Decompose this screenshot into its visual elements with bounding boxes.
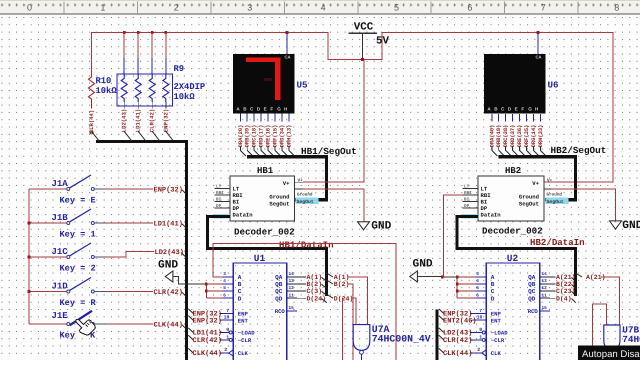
7-segment display U6 (blank) <box>484 54 546 114</box>
svg-text:ENP(32): ENP(32) <box>162 109 169 133</box>
U1 output wires A(1) B(2) C(3) D(24) into bus <box>297 274 327 303</box>
svg-text:SegOut: SegOut <box>519 201 539 208</box>
svg-text:~CLR: ~CLR <box>491 337 505 344</box>
svg-text:HB2: HB2 <box>505 166 521 176</box>
svg-text:Ground: Ground <box>519 194 539 201</box>
svg-text:~LOAD: ~LOAD <box>238 330 255 337</box>
svg-text:D: D <box>238 295 242 302</box>
svg-text:CLK(44): CLK(44) <box>193 349 222 358</box>
svg-text:ORD(37): ORD(37) <box>510 125 516 148</box>
svg-text:5: 5 <box>394 2 399 12</box>
wire J1A to bus, net ENP(32) <box>94 185 186 194</box>
wire B(2) down to U7B <box>348 284 353 360</box>
svg-text:E: E <box>515 107 518 112</box>
bus entry diagonals from resistors <box>92 131 174 141</box>
svg-text:F: F <box>270 107 273 112</box>
resistor pack R9 2X4DIP <box>117 33 205 109</box>
svg-text:J1A: J1A <box>52 179 69 189</box>
svg-text:ENP(32): ENP(32) <box>154 185 183 194</box>
svg-text:RCO: RCO <box>528 308 539 315</box>
switch J1E Key = K <box>29 311 96 341</box>
svg-text:3: 3 <box>247 2 252 12</box>
bus HB2/SegOut <box>499 157 576 200</box>
svg-text:Autopan Disa: Autopan Disa <box>582 349 640 360</box>
svg-text:13: 13 <box>542 279 548 284</box>
svg-text:74HC00N_4V: 74HC00N_4V <box>622 334 640 345</box>
svg-text:G: G <box>277 107 281 112</box>
svg-text:D(24): D(24) <box>307 295 327 302</box>
svg-text:ENT: ENT <box>491 317 502 324</box>
svg-text:C: C <box>238 288 242 295</box>
svg-text:15: 15 <box>289 306 295 311</box>
svg-text:CLK(44): CLK(44) <box>443 349 472 358</box>
svg-text:9: 9 <box>226 327 229 333</box>
svg-text:U2: U2 <box>507 253 519 264</box>
U1 control net labels from bus <box>188 309 222 358</box>
wire HB1 Ground to GND <box>295 189 364 222</box>
svg-text:SegOut: SegOut <box>269 201 289 208</box>
svg-text:QC: QC <box>275 288 283 295</box>
svg-text:BI: BI <box>464 197 470 202</box>
svg-text:DP: DP <box>464 204 470 209</box>
svg-text:4: 4 <box>223 279 226 284</box>
svg-text:6: 6 <box>223 293 226 298</box>
svg-text:~LOAD: ~LOAD <box>491 330 508 337</box>
svg-text:B(2): B(2) <box>334 281 350 288</box>
svg-text:Key = 2: Key = 2 <box>60 264 96 274</box>
svg-text:1: 1 <box>100 2 105 12</box>
svg-text:DataIn: DataIn <box>481 211 502 218</box>
svg-text:ORE(16): ORE(16) <box>266 125 272 148</box>
svg-text:LD2(43): LD2(43) <box>155 248 184 257</box>
top ruler bar <box>0 0 640 14</box>
svg-text:GND: GND <box>413 259 433 271</box>
svg-text:U6: U6 <box>548 80 559 91</box>
counter U2 <box>473 253 551 362</box>
svg-text:Ground: Ground <box>297 192 313 198</box>
power VCC <box>349 22 390 60</box>
svg-text:ORC(38): ORC(38) <box>503 125 509 148</box>
svg-text:7: 7 <box>226 308 229 314</box>
svg-text:QB: QB <box>275 281 283 288</box>
svg-text:Decoder_002: Decoder_002 <box>482 226 543 237</box>
junction dots on key rail <box>28 222 31 293</box>
bus HB2/DataIn <box>457 217 576 297</box>
svg-text:GND: GND <box>622 220 640 232</box>
wire U6 CA stem <box>537 33 539 55</box>
svg-text:Ground: Ground <box>547 192 563 198</box>
svg-text:DataIn: DataIn <box>233 211 254 218</box>
svg-text:HB1/SegOut: HB1/SegOut <box>301 146 357 157</box>
svg-text:8: 8 <box>614 2 619 12</box>
svg-text:LT: LT <box>216 184 222 189</box>
svg-text:E: E <box>264 107 267 112</box>
HB2 DataIn pin cyan highlight <box>462 214 479 218</box>
svg-text:13: 13 <box>289 279 295 284</box>
svg-text:5V: 5V <box>376 36 389 48</box>
svg-text:14: 14 <box>289 272 295 277</box>
wire U1.A net to U7B (long) <box>213 244 396 361</box>
svg-text:C: C <box>491 288 495 295</box>
svg-text:LD2(43): LD2(43) <box>121 109 128 133</box>
svg-text:ORD(17): ORD(17) <box>259 125 265 148</box>
bus HB1/SegOut <box>247 157 327 200</box>
wire J1D to bus, net CLR(42) <box>94 288 186 297</box>
svg-text:RCO: RCO <box>275 308 286 315</box>
svg-text:ORH(13): ORH(13) <box>286 125 292 148</box>
svg-text:D: D <box>491 295 495 302</box>
wire A(1) to U7A input <box>348 277 368 325</box>
svg-text:GND: GND <box>371 220 391 232</box>
svg-text:A: A <box>238 274 242 281</box>
svg-text:ORC(18): ORC(18) <box>252 125 258 148</box>
svg-text:G: G <box>528 107 532 112</box>
svg-text:Key = 1: Key = 1 <box>60 230 96 240</box>
wire left key rail <box>28 189 30 324</box>
svg-text:F: F <box>521 107 524 112</box>
svg-text:CLR(42): CLR(42) <box>193 336 222 345</box>
svg-text:4: 4 <box>476 279 479 284</box>
svg-text:ORE(36): ORE(36) <box>517 125 523 148</box>
bus exit wires A(1) B(2) D(24) right of bus <box>326 273 353 303</box>
svg-text:BI: BI <box>216 197 222 202</box>
svg-text:4: 4 <box>321 2 326 12</box>
svg-text:B(2): B(2) <box>307 281 323 288</box>
svg-text:CLK(44): CLK(44) <box>154 320 183 329</box>
U6 segment wires with labels to bus <box>489 114 546 156</box>
svg-text:3: 3 <box>223 272 226 277</box>
svg-text:11: 11 <box>289 293 295 298</box>
svg-text:2X4DIP: 2X4DIP <box>174 82 206 92</box>
svg-text:14: 14 <box>542 272 548 277</box>
svg-text:R10: R10 <box>96 76 112 86</box>
svg-text:Key = E: Key = E <box>60 196 96 206</box>
svg-text:CLR(42): CLR(42) <box>443 336 472 345</box>
svg-text:74HC00N_4V: 74HC00N_4V <box>372 333 431 344</box>
svg-text:2: 2 <box>174 2 179 12</box>
ground symbol GND (right of HB2) <box>610 220 640 232</box>
svg-text:B: B <box>491 281 495 288</box>
bus exit wire A(21) right of bus <box>575 273 605 281</box>
svg-text:HB2/DataIn: HB2/DataIn <box>530 237 585 248</box>
svg-text:LT: LT <box>464 184 470 189</box>
svg-text:1: 1 <box>226 334 229 340</box>
wire vertical crossing near U7A <box>341 298 343 360</box>
U2 control net labels from bus <box>439 309 477 358</box>
svg-text:ORF(15): ORF(15) <box>273 125 279 148</box>
svg-text:Ground: Ground <box>269 194 289 201</box>
bus main left (resistors/keys to U1) <box>96 142 187 361</box>
svg-text:J1D: J1D <box>52 281 69 291</box>
svg-text:CA: CA <box>284 55 290 60</box>
svg-text:V+: V+ <box>283 180 290 187</box>
switch J1A Key = E <box>29 175 96 206</box>
svg-text:HB2/SegOut: HB2/SegOut <box>551 145 607 156</box>
switch J1B Key = 1 <box>29 209 96 240</box>
svg-text:CA: CA <box>535 55 541 60</box>
svg-text:ENT2(46): ENT2(46) <box>443 316 477 325</box>
7-segment display U5 showing 7 <box>233 54 295 114</box>
svg-text:6: 6 <box>476 293 479 298</box>
junction dots on VCC rail <box>123 31 540 61</box>
svg-text:V+: V+ <box>532 180 539 187</box>
svg-text:CLR(42): CLR(42) <box>154 288 183 297</box>
svg-text:ORB(18): ORB(18) <box>496 125 502 148</box>
wire U7B loop <box>593 304 607 352</box>
svg-text:J1B: J1B <box>52 213 69 223</box>
svg-text:A: A <box>491 274 495 281</box>
svg-text:CLR(42): CLR(42) <box>149 109 156 133</box>
svg-text:0: 0 <box>27 2 32 12</box>
svg-text:12: 12 <box>289 286 295 291</box>
svg-text:15: 15 <box>542 306 548 311</box>
svg-text:~CLR: ~CLR <box>238 337 252 344</box>
wire VCC rail <box>92 33 614 183</box>
svg-text:A(1): A(1) <box>307 274 323 281</box>
svg-text:HB1/DataIn: HB1/DataIn <box>279 240 334 251</box>
svg-text:ENT: ENT <box>238 317 249 324</box>
svg-text:12: 12 <box>542 286 548 291</box>
cursor hand icon over J1E <box>72 313 97 338</box>
svg-text:3: 3 <box>476 272 479 277</box>
svg-text:ORG(34): ORG(34) <box>279 125 285 148</box>
svg-text:B: B <box>238 281 242 288</box>
wire J1E to bus, net CLK(44) <box>94 320 186 329</box>
svg-text:QB: QB <box>528 281 536 288</box>
svg-text:J1C: J1C <box>52 247 69 257</box>
U2 output wires A(21) B(22) C(23) D(4) into bus <box>550 274 576 303</box>
svg-text:U1: U1 <box>254 253 266 264</box>
svg-text:R9: R9 <box>174 64 185 74</box>
wire GND to U2 inputs <box>417 276 475 299</box>
svg-text:C(3): C(3) <box>307 288 323 295</box>
svg-text:ORA(40): ORA(40) <box>489 125 495 148</box>
svg-text:GND: GND <box>158 260 178 272</box>
hierarchical block HB2 Decoder_002 <box>463 166 563 221</box>
svg-text:LD1(41): LD1(41) <box>154 219 183 228</box>
svg-text:QD: QD <box>275 295 283 302</box>
svg-text:5: 5 <box>223 286 226 291</box>
bus U2 control <box>435 310 438 361</box>
svg-text:6: 6 <box>467 2 472 12</box>
resistor R10 <box>89 33 118 134</box>
wire HB2 RBI to ground net <box>444 195 463 277</box>
svg-text:A(21): A(21) <box>586 274 606 281</box>
svg-text:10kΩ: 10kΩ <box>96 86 118 96</box>
svg-text:2: 2 <box>224 347 227 353</box>
svg-text:10: 10 <box>224 315 230 321</box>
HB2 SegOut pin cyan highlight + label <box>546 198 569 206</box>
U5 segment wires with labels to bus <box>238 113 295 156</box>
svg-text:QC: QC <box>528 288 536 295</box>
svg-text:J1E: J1E <box>52 311 69 321</box>
svg-text:ORB(39): ORB(39) <box>245 125 251 148</box>
HB1 SegOut pin cyan highlight + label <box>296 198 319 206</box>
wire J1B to bus, net LD1(41) <box>94 219 186 228</box>
svg-text:ORF(35): ORF(35) <box>524 125 530 148</box>
svg-text:7: 7 <box>541 2 546 12</box>
svg-text:Key = R: Key = R <box>60 298 97 308</box>
svg-text:D(24): D(24) <box>334 295 354 302</box>
svg-text:SegOut: SegOut <box>547 199 564 205</box>
ground symbol GND (keys/U1) <box>158 260 178 282</box>
svg-text:QD: QD <box>528 295 536 302</box>
svg-text:2: 2 <box>477 347 480 353</box>
svg-text:ORA(20): ORA(20) <box>238 125 244 148</box>
wire HB2 Ground to GND <box>544 189 616 221</box>
ground symbol GND (below HB1) <box>358 220 392 232</box>
svg-text:5: 5 <box>476 286 479 291</box>
bus HB1/DataIn <box>208 217 327 297</box>
svg-text:U5: U5 <box>297 80 309 91</box>
ground symbol GND (left of U2) <box>410 259 433 282</box>
svg-text:A(1): A(1) <box>334 274 350 281</box>
svg-text:LD1(41): LD1(41) <box>135 109 142 133</box>
svg-text:CLK: CLK <box>238 350 249 357</box>
NAND gate U7A 74HC00N_4V <box>353 324 431 360</box>
wire HB1 V+ to VCC <box>295 60 364 183</box>
svg-text:V+: V+ <box>547 179 553 184</box>
NAND gate U7B <box>604 325 640 350</box>
svg-text:V+: V+ <box>298 179 304 184</box>
switch J1C Key = 2 <box>29 243 96 274</box>
switch J1D Key = R <box>29 278 96 309</box>
svg-text:SegOut: SegOut <box>297 199 314 205</box>
svg-text:QA: QA <box>528 274 536 281</box>
svg-text:CLK: CLK <box>491 350 502 357</box>
svg-text:VCC: VCC <box>354 22 374 34</box>
svg-text:RBI: RBI <box>216 191 224 196</box>
wire D(24) to U7A input <box>352 298 357 324</box>
svg-text:DP: DP <box>216 204 222 209</box>
svg-text:Key: Key <box>60 331 75 341</box>
svg-text:HB1: HB1 <box>257 166 274 176</box>
wire A(21) to U7B <box>601 277 620 325</box>
svg-text:ORG(14): ORG(14) <box>531 125 537 148</box>
svg-text:10kΩ: 10kΩ <box>174 92 196 102</box>
status tooltip Autopan Disabled <box>578 346 640 360</box>
svg-text:QA: QA <box>275 274 283 281</box>
HB1 DataIn pin cyan highlight <box>214 214 231 218</box>
wire J1C to bus, net LD2(43) <box>94 248 186 258</box>
svg-text:CLR(44): CLR(44) <box>88 110 95 134</box>
svg-text:Decoder_002: Decoder_002 <box>234 227 295 238</box>
wire GND to U1 B input <box>173 277 223 299</box>
svg-text:D(4): D(4) <box>556 295 572 302</box>
wire U5 CA stem <box>286 33 288 55</box>
svg-text:7: 7 <box>479 308 482 314</box>
svg-text:1: 1 <box>479 334 482 340</box>
svg-text:11: 11 <box>542 293 548 298</box>
svg-text:9: 9 <box>479 327 482 333</box>
svg-text:10: 10 <box>477 315 483 321</box>
svg-text:RBI: RBI <box>464 191 472 196</box>
svg-text:ENP(32): ENP(32) <box>193 316 222 325</box>
hierarchical block HB1 Decoder_002 <box>215 166 313 221</box>
counter U1 <box>220 253 298 362</box>
svg-text:ORH(33): ORH(33) <box>538 125 544 148</box>
